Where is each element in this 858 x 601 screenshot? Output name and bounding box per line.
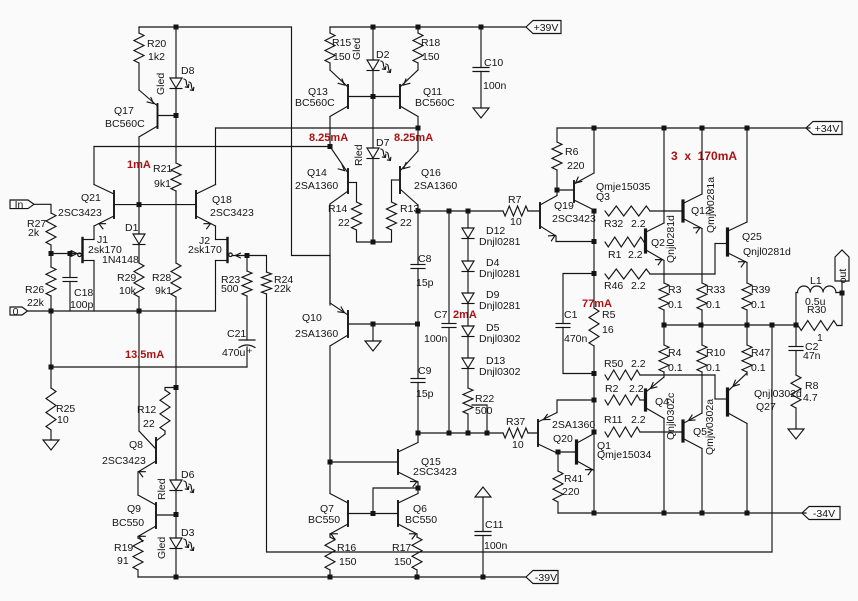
svg-text:2mA: 2mA [453, 309, 477, 321]
wire tail rail [28, 310, 216, 312]
wire R21-R28 link [175, 191, 177, 263]
svg-text:Q17: Q17 [114, 105, 134, 117]
svg-text:C21: C21 [227, 328, 246, 340]
J2 gate contact [229, 253, 233, 257]
svg-text:R4: R4 [668, 347, 682, 359]
wire Q17 collector drop [138, 137, 140, 205]
resistor R20 1k2 [134, 33, 166, 63]
svg-text:0.1: 0.1 [751, 362, 766, 374]
svg-text:2.2: 2.2 [631, 414, 646, 426]
wire C8 top [417, 211, 419, 265]
svg-text:Qmjw0302a: Qmjw0302a [704, 399, 716, 455]
wire bias row [418, 432, 503, 434]
resistor R17 150 [392, 537, 422, 570]
node R32 [592, 209, 597, 214]
svg-text:-39V: -39V [535, 572, 557, 584]
wire D13 to R22 [467, 369, 469, 389]
resistor R10 0.1 [697, 345, 725, 374]
node rail c [700, 126, 705, 131]
svg-text:91: 91 [117, 555, 129, 567]
svg-text:10k: 10k [119, 285, 137, 297]
wire R7 to Q19 base [528, 210, 539, 212]
wire node to Q3 base [557, 189, 573, 191]
wire Q7 emitter lead [329, 534, 331, 537]
wire Q12 emitter lead [701, 229, 703, 284]
node rail b [662, 126, 667, 131]
wire C1 bottom loop [563, 328, 594, 374]
wire R26 top [50, 254, 52, 268]
wire R22 bottom [467, 414, 469, 433]
svg-text:R20: R20 [147, 38, 166, 50]
node -34V flag [802, 507, 840, 521]
wire node to R24 [247, 256, 267, 273]
svg-text:2SC3423: 2SC3423 [102, 455, 146, 467]
svg-text:Dnjl0281: Dnjl0281 [479, 236, 521, 248]
wire output bus [664, 324, 796, 326]
svg-text:+39V: +39V [534, 22, 559, 34]
wire node to D6 [175, 388, 177, 481]
svg-text:500: 500 [475, 405, 493, 417]
svg-text:22: 22 [400, 217, 412, 229]
resistor R16 150 [325, 537, 357, 570]
svg-text:47n: 47n [803, 350, 821, 362]
transistor Q21 2SC3423 [58, 185, 114, 229]
wire R33 bottom [701, 310, 703, 325]
transistor Q13 BC560C [295, 70, 373, 117]
transistor Q6 BC550 [373, 494, 437, 539]
node D2 top [371, 25, 376, 30]
resistor R21 9k1 [153, 163, 181, 191]
svg-text:D1: D1 [125, 222, 139, 234]
svg-text:R50: R50 [604, 358, 623, 370]
node bus c [745, 323, 750, 328]
wire R6 top [556, 128, 558, 142]
svg-text:R11: R11 [604, 414, 623, 426]
node tail [137, 309, 142, 314]
node Q10 base [371, 322, 376, 327]
transistor Q27 Qnjl0302d [715, 373, 802, 424]
wire Q6 emitter lead [416, 534, 418, 537]
wire R12 top bend [165, 388, 176, 391]
wire Q19 emitter link [556, 236, 594, 242]
node bus b [699, 323, 704, 328]
wire -34V rail [558, 512, 806, 514]
svg-text:R12: R12 [137, 404, 156, 416]
node base rail [137, 202, 142, 207]
svg-text:2SA1360: 2SA1360 [552, 419, 595, 431]
wire out stem [841, 281, 843, 293]
node VAS base [371, 94, 376, 99]
svg-text:D7: D7 [376, 137, 390, 149]
wire R20 top [138, 27, 140, 33]
svg-text:2sk170: 2sk170 [188, 244, 222, 256]
transistor Q15 2SC3423 [330, 443, 457, 487]
inductor L1 0.5u [798, 275, 836, 308]
wire -39V rail [138, 576, 526, 578]
svg-text:1k2: 1k2 [148, 51, 165, 63]
node 0 flag [10, 306, 28, 318]
svg-text:0.1: 0.1 [668, 299, 683, 311]
resistor R8 4.7 [791, 375, 819, 408]
wire rail to Q25 collector [746, 128, 748, 222]
wire A cascode link [216, 127, 419, 129]
svg-text:10: 10 [510, 216, 522, 228]
svg-text:0.1: 0.1 [751, 299, 766, 311]
wire R26 bottom [50, 296, 52, 311]
svg-text:0.1: 0.1 [706, 299, 721, 311]
transistor Q3 Qmje15035 [574, 173, 650, 210]
resistor R46 2.2 [604, 269, 650, 292]
wire R47 top [746, 325, 748, 345]
resistor R41 220 [553, 471, 583, 502]
svg-text:R28: R28 [152, 272, 171, 284]
svg-text:R5: R5 [602, 309, 616, 321]
svg-text:100n: 100n [424, 333, 448, 345]
svg-text:22: 22 [338, 217, 350, 229]
wire R28 to R12 node [175, 297, 177, 388]
svg-text:C7: C7 [434, 309, 448, 321]
svg-text:Q10: Q10 [302, 312, 322, 324]
svg-text:4.7: 4.7 [803, 392, 818, 404]
node neg d [745, 511, 750, 516]
node neg a [592, 511, 597, 516]
resistor R5 16 [589, 308, 616, 346]
node R22 bot [466, 431, 471, 436]
svg-text:470n: 470n [564, 333, 588, 345]
wire R32 to Q12 [650, 210, 682, 212]
svg-text:77mA: 77mA [582, 298, 612, 310]
svg-text:BC550: BC550 [405, 514, 437, 526]
wire base rail Q21-Q18 [114, 204, 196, 206]
wire C21 bottom [246, 347, 248, 367]
capacitor C11 100n [475, 519, 508, 552]
resistor R29 10k [117, 263, 144, 297]
svg-text:Rled: Rled [156, 478, 168, 500]
wire Q21 collector up [93, 147, 95, 185]
svg-text:100n: 100n [484, 540, 508, 552]
svg-text:15p: 15p [416, 277, 434, 289]
wire Q27 collector down [746, 424, 748, 514]
svg-text:R7: R7 [508, 194, 522, 206]
resistor R33 0.1 [697, 283, 725, 311]
svg-text:-34V: -34V [813, 508, 835, 520]
node neg b [662, 511, 667, 516]
svg-text:C8: C8 [418, 253, 432, 265]
wire Q9 emitter lead [137, 537, 139, 539]
svg-text:R1: R1 [608, 249, 622, 261]
transistor Q1 Qmje15034 [575, 434, 651, 475]
resistor R12 22 [137, 390, 170, 431]
svg-text:R21: R21 [153, 163, 172, 175]
svg-text:Q21: Q21 [81, 192, 101, 204]
wire top bootstrap rail [139, 27, 330, 256]
resistor R23 500 [221, 271, 252, 296]
svg-text:R29: R29 [117, 272, 136, 284]
wire R39 bottom [746, 310, 748, 325]
ground input [43, 440, 59, 450]
transistor Q8 2SC3423 [102, 431, 165, 477]
wire rail to Q3 emitter [593, 128, 595, 173]
wire gate feed [51, 253, 80, 255]
wire drive link [373, 488, 418, 514]
J1 gate arrow [71, 251, 77, 257]
svg-text:R46: R46 [604, 280, 623, 292]
wire Q27 base drop [714, 375, 716, 399]
wire J1 source [93, 261, 95, 312]
transistor Q16 2SA1360 [392, 151, 458, 205]
transistor Q25 Qnjl0281d [715, 222, 791, 267]
wire D2 to base node [372, 71, 374, 97]
wire R10 top [701, 325, 703, 345]
svg-text:C18: C18 [74, 287, 93, 299]
node C11 bot [481, 575, 486, 580]
LED D2 [367, 49, 391, 72]
wire Q17 base col [175, 116, 177, 164]
node tap [485, 431, 490, 436]
diode D12 Dnjl0281 [462, 225, 521, 248]
wire R23 to C21 [246, 296, 248, 340]
node C10 top [479, 25, 484, 30]
wire Q21 emitter to J1 [93, 226, 95, 240]
wire Q8 emitter to Q9 [137, 472, 139, 495]
wire Q19 collector [556, 190, 558, 196]
resistor R2 2.2 [605, 383, 644, 405]
wire R2 to Q4 [640, 399, 644, 401]
svg-text:C1: C1 [564, 309, 578, 321]
LED D6 [170, 469, 195, 492]
wire R6 to node [556, 170, 558, 190]
diode D4 Dnjl0281 [462, 257, 521, 280]
svg-text:22k: 22k [27, 297, 45, 309]
transistor Q14 2SA1360 [295, 147, 357, 205]
wire Q20 emitter up [557, 400, 594, 413]
node D8 top [174, 25, 179, 30]
svg-text:Qnjl0302c: Qnjl0302c [665, 393, 677, 440]
svg-text:D2: D2 [376, 49, 390, 61]
svg-text:Q20: Q20 [553, 433, 573, 445]
node rail d [745, 126, 750, 131]
svg-text:Gled: Gled [156, 537, 168, 559]
svg-text:Q25: Q25 [742, 231, 762, 243]
transistor Q2 Qnjl0281d [644, 223, 665, 265]
svg-text:9k1: 9k1 [155, 285, 172, 297]
node drive [416, 486, 421, 491]
node C7 bot [447, 431, 452, 436]
wire R14 drop [356, 183, 358, 203]
wire C9 bottom [417, 383, 419, 434]
resistor R22 500 [463, 388, 494, 417]
wire D9-D5 [467, 304, 469, 327]
wire R37 to Q20 base [528, 432, 537, 434]
node C7 top [447, 209, 452, 214]
node cascode R [416, 126, 421, 131]
svg-text:Q18: Q18 [212, 194, 232, 206]
wire Q2 emitter lead [663, 261, 665, 284]
wire R13 to node [373, 230, 392, 242]
svg-text:2SA1360: 2SA1360 [414, 180, 457, 192]
svg-text:22: 22 [143, 418, 155, 430]
svg-text:150: 150 [422, 51, 440, 63]
wire rail to Q2 collector [663, 128, 665, 223]
resistor R14 22 [328, 202, 362, 230]
wire Q6 collector up [417, 488, 419, 494]
svg-text:Q9: Q9 [127, 503, 141, 515]
svg-text:Q27: Q27 [756, 401, 776, 413]
svg-text:R22: R22 [475, 393, 494, 405]
wire R3 bottom [663, 310, 665, 325]
capacitor C18 100p [63, 278, 94, 312]
node gate L [49, 251, 54, 256]
LED D8 [170, 65, 195, 90]
node R11 [592, 430, 597, 435]
node R50 [592, 371, 597, 376]
capacitor C2 47n [789, 341, 821, 362]
node bus out [794, 323, 799, 328]
wire rail to Q12 collector [701, 128, 703, 194]
wire D5-D13 [467, 337, 469, 359]
svg-text:16: 16 [602, 324, 614, 336]
JFET J2 2sk170 [188, 235, 228, 262]
node R46 [592, 271, 597, 276]
svg-text:R33: R33 [706, 284, 725, 296]
svg-text:R47: R47 [751, 347, 770, 359]
wire Q4 collector down [663, 419, 665, 514]
node R12 top [174, 385, 179, 390]
wire C11 stem [482, 497, 484, 532]
JFET J1 2sk170 [83, 234, 123, 262]
wire Q18 collector up [215, 128, 217, 185]
svg-text:2.2: 2.2 [631, 358, 646, 370]
wire gate node to R23 [246, 256, 248, 272]
resistor R28 9k1 [152, 263, 181, 297]
diode D5 Dnjl0302 [462, 322, 521, 345]
J2 gate arrow [236, 253, 241, 258]
svg-text:2k: 2k [28, 227, 40, 239]
svg-text:R2: R2 [605, 383, 619, 395]
svg-text:0.5u: 0.5u [805, 296, 826, 308]
svg-text:C10: C10 [484, 57, 503, 69]
wire C8-C9 link [417, 269, 419, 379]
svg-text:150: 150 [339, 556, 357, 568]
resistor R3 0.1 [659, 283, 683, 311]
wire Q13 collector [329, 117, 331, 147]
svg-text:Q19: Q19 [554, 200, 574, 212]
wire node to R41 [557, 452, 559, 471]
svg-text:2.2: 2.2 [631, 280, 646, 292]
wire base rail to D1 [138, 205, 140, 234]
wire R29 bottom to Q8 [138, 297, 140, 431]
node chain top [466, 209, 471, 214]
wire R18 to Q11 [417, 63, 419, 70]
wire R11 to Q5 [640, 431, 682, 433]
wire L1 left leg [796, 293, 798, 326]
wire C10 top [480, 27, 482, 68]
wire R4 bottom [663, 372, 665, 377]
wire R19 bottom [137, 570, 139, 577]
svg-text:100p: 100p [70, 299, 94, 311]
resistor R47 0.1 [742, 345, 770, 374]
svg-text:L1: L1 [810, 275, 822, 287]
wire R14 to node [357, 230, 374, 242]
wire R27 to gate node [50, 245, 52, 254]
svg-text:Dnjl0281: Dnjl0281 [479, 268, 521, 280]
ground C10 [473, 108, 489, 118]
resistor R37 10 [503, 416, 528, 451]
wire VAS out row [418, 210, 503, 212]
node R2 [592, 398, 597, 403]
svg-text:9k1: 9k1 [154, 178, 171, 190]
svg-text:2SC3423: 2SC3423 [58, 207, 102, 219]
wire R41 bottom [557, 502, 559, 513]
resistor R15 150 [325, 33, 351, 63]
svg-text:2SC3423: 2SC3423 [552, 213, 596, 225]
wire R15 to Q13 [329, 63, 331, 70]
node fb gnd [49, 365, 54, 370]
svg-text:R8: R8 [805, 380, 819, 392]
wire C2 to R8 [795, 351, 797, 376]
wire R20 to Q17 emitter [138, 63, 140, 90]
svg-text:R16: R16 [337, 542, 356, 554]
wire R18 top [417, 27, 419, 33]
svg-text:BC560C: BC560C [295, 97, 335, 109]
svg-text:Rled: Rled [353, 144, 365, 166]
wire C7 bottom [448, 328, 450, 434]
svg-text:10: 10 [512, 439, 524, 451]
svg-text:100n: 100n [483, 80, 507, 92]
svg-text:R15: R15 [332, 37, 351, 49]
svg-text:Q14: Q14 [307, 167, 327, 179]
node gate R [245, 253, 250, 258]
svg-text:R17: R17 [392, 542, 411, 554]
wire R8 to gnd [795, 408, 797, 429]
transistor Q4 Qnjl0302c [644, 377, 669, 419]
svg-text:BC550: BC550 [112, 517, 144, 529]
node out [840, 291, 845, 296]
wire bias column upper [593, 210, 595, 308]
wire Q14 collector col [329, 204, 331, 305]
node Q20 coll [556, 450, 561, 455]
wire Q11 collector [417, 117, 419, 129]
node bus a [662, 323, 667, 328]
svg-text:13.5mA: 13.5mA [125, 349, 164, 361]
node In flag [10, 199, 34, 211]
wire R16 bottom [329, 570, 331, 577]
resistor R18 150 [413, 33, 440, 63]
svg-text:Q8: Q8 [129, 439, 143, 451]
svg-text:Q16: Q16 [421, 167, 441, 179]
node rail a [592, 126, 597, 131]
wire D1 to R29 [138, 245, 140, 264]
capacitor C8 15p [411, 253, 434, 289]
svg-text:C9: C9 [418, 365, 432, 377]
node Q7Q6 base [371, 511, 376, 516]
wire Q25 base drop [714, 244, 716, 275]
svg-text:R39: R39 [751, 284, 770, 296]
svg-text:R37: R37 [506, 416, 525, 428]
wire Q18 emitter to J2 [215, 226, 217, 240]
resistor R50 2.2 [604, 358, 646, 380]
wire B cascode link [94, 146, 330, 148]
svg-text:Dnjl0281: Dnjl0281 [479, 300, 521, 312]
wire +34V rail [557, 127, 810, 129]
J1 gate contact [78, 253, 82, 257]
wire R4 top [663, 325, 665, 345]
wire Q15 emitter down [417, 482, 419, 488]
wire 0 net drop [50, 311, 52, 367]
svg-text:150: 150 [333, 51, 351, 63]
node bias L [416, 431, 421, 436]
node Q3 base [555, 188, 560, 193]
